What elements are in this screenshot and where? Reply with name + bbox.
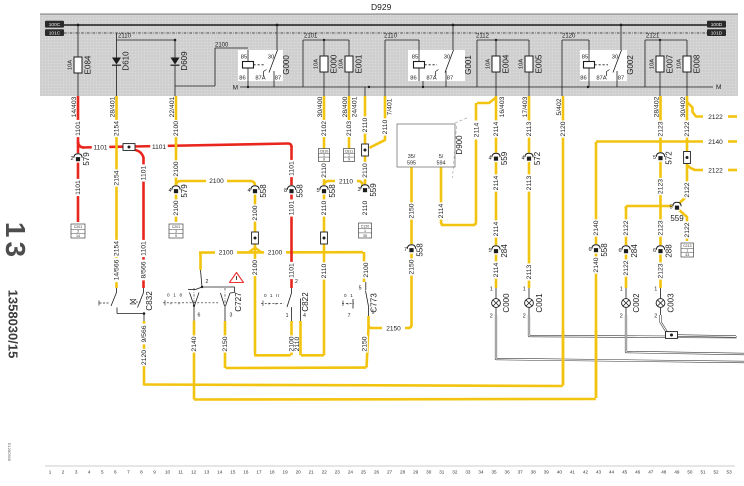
svg-text:1: 1 [364, 229, 366, 233]
svg-text:2140: 2140 [708, 139, 723, 146]
svg-text:2110: 2110 [294, 336, 301, 351]
svg-text:M: M [716, 84, 721, 91]
svg-text:3: 3 [175, 229, 177, 233]
svg-text:2102: 2102 [321, 121, 328, 136]
svg-text:2: 2 [620, 314, 623, 320]
svg-text:2123: 2123 [658, 220, 665, 235]
svg-text:10A: 10A [314, 59, 320, 69]
svg-text:579: 579 [180, 184, 189, 198]
svg-text:4: 4 [303, 313, 306, 319]
svg-text:558: 558 [296, 184, 305, 198]
svg-text:2154: 2154 [114, 170, 121, 185]
svg-text:2114: 2114 [474, 122, 481, 137]
svg-text:2154: 2154 [114, 241, 121, 256]
svg-text:1101: 1101 [152, 144, 166, 151]
svg-text:C773: C773 [369, 293, 378, 313]
svg-text:10A: 10A [677, 59, 683, 69]
svg-text:2114: 2114 [493, 221, 500, 236]
svg-text:37: 37 [518, 470, 524, 475]
svg-text:28/402: 28/402 [653, 96, 660, 117]
svg-text:1358030/15: 1358030/15 [6, 290, 21, 359]
svg-text:E007: E007 [666, 54, 675, 73]
svg-text:2122: 2122 [623, 220, 630, 235]
svg-text:572: 572 [665, 151, 674, 165]
svg-text:5: 5 [669, 204, 672, 210]
svg-text:+: + [178, 301, 181, 306]
svg-text:1: 1 [49, 470, 52, 475]
svg-text:595: 595 [407, 161, 416, 167]
svg-text:2112: 2112 [476, 34, 490, 40]
svg-text:9/566: 9/566 [141, 325, 148, 342]
svg-text:17/403: 17/403 [522, 96, 529, 117]
svg-text:18: 18 [269, 470, 275, 475]
svg-text:+: + [170, 301, 173, 306]
svg-text:2140: 2140 [593, 257, 600, 272]
svg-text:2122: 2122 [684, 182, 691, 197]
svg-text:87: 87 [618, 76, 624, 82]
svg-text:2150: 2150 [409, 203, 416, 218]
svg-text:14/566: 14/566 [114, 259, 121, 280]
svg-text:1101: 1101 [141, 241, 148, 256]
svg-text:G002: G002 [626, 55, 635, 75]
svg-text:C003: C003 [666, 293, 675, 313]
svg-text:85: 85 [412, 55, 418, 61]
svg-text:D610: D610 [122, 51, 131, 71]
svg-text:2101: 2101 [304, 34, 318, 40]
svg-text:51: 51 [700, 470, 706, 475]
svg-text:579: 579 [82, 152, 91, 166]
svg-text:30: 30 [612, 55, 618, 61]
svg-text:2114: 2114 [438, 203, 445, 218]
svg-text:C822: C822 [301, 292, 310, 312]
svg-text:1101: 1101 [75, 121, 82, 136]
svg-text:28/401: 28/401 [109, 96, 116, 117]
svg-text:0 1 8: 0 1 8 [167, 293, 183, 298]
svg-text:16/403: 16/403 [499, 96, 506, 117]
svg-text:2110: 2110 [118, 34, 132, 40]
svg-text:2114: 2114 [493, 121, 500, 136]
svg-text:2: 2 [295, 279, 298, 285]
svg-text:2110: 2110 [321, 200, 328, 215]
svg-text:100D: 100D [711, 22, 723, 28]
svg-text:8/566: 8/566 [141, 261, 148, 278]
svg-text:559: 559 [369, 183, 378, 197]
svg-text:1: 1 [686, 248, 688, 252]
svg-text:G001: G001 [464, 55, 473, 75]
svg-text:5/: 5/ [439, 154, 444, 160]
svg-text:572: 572 [533, 151, 542, 165]
svg-text:4: 4 [88, 470, 91, 475]
svg-text:2150: 2150 [409, 259, 416, 274]
svg-text:2: 2 [62, 470, 65, 475]
svg-text:7: 7 [348, 313, 351, 319]
svg-text:E001: E001 [355, 54, 364, 73]
svg-text:2114: 2114 [493, 175, 500, 190]
svg-text:G000: G000 [282, 55, 291, 75]
svg-text:1: 1 [654, 287, 657, 293]
svg-text:1101: 1101 [94, 145, 108, 152]
svg-text:2100: 2100 [215, 43, 229, 49]
svg-text:284: 284 [500, 244, 509, 258]
svg-text:22/401: 22/401 [169, 96, 176, 117]
svg-text:559: 559 [500, 151, 509, 165]
svg-text:4: 4 [247, 188, 250, 194]
svg-text:52: 52 [713, 470, 719, 475]
svg-text:85: 85 [582, 55, 588, 61]
svg-text:4: 4 [521, 155, 524, 161]
svg-text:2: 2 [654, 314, 657, 320]
svg-text:5: 5 [101, 470, 104, 475]
svg-text:2110: 2110 [339, 178, 353, 185]
svg-text:10A: 10A [650, 59, 656, 69]
svg-text:+: + [347, 302, 350, 307]
svg-text:30: 30 [268, 55, 274, 61]
svg-text:39: 39 [544, 470, 550, 475]
svg-text:13: 13 [0, 222, 31, 261]
svg-text:558: 558 [416, 243, 425, 257]
svg-text:2120: 2120 [141, 350, 148, 365]
svg-text:2123: 2123 [658, 121, 665, 136]
svg-text:35: 35 [363, 234, 367, 238]
svg-text:2150: 2150 [222, 336, 229, 351]
svg-text:2110: 2110 [382, 119, 389, 134]
svg-text:10A: 10A [486, 59, 492, 69]
svg-text:6: 6 [198, 313, 201, 319]
svg-text:20: 20 [296, 470, 302, 475]
svg-text:2110: 2110 [362, 163, 369, 178]
svg-text:30/402: 30/402 [680, 96, 687, 117]
svg-text:C002: C002 [632, 293, 641, 313]
svg-text:288: 288 [665, 244, 674, 258]
svg-text:2100: 2100 [268, 249, 283, 256]
svg-text:2100: 2100 [173, 200, 180, 215]
svg-text:284: 284 [630, 244, 639, 258]
svg-text:2120: 2120 [560, 121, 567, 136]
svg-text:49: 49 [674, 470, 680, 475]
svg-text:2110: 2110 [384, 34, 398, 40]
svg-text:24/401: 24/401 [351, 96, 358, 117]
svg-text:0 1: 0 1 [344, 293, 354, 298]
svg-text:100C: 100C [49, 22, 61, 28]
svg-text:2140: 2140 [593, 220, 600, 235]
svg-text:3: 3 [77, 229, 79, 233]
svg-text:21: 21 [309, 470, 315, 475]
svg-text:45: 45 [622, 470, 628, 475]
svg-text:12: 12 [191, 470, 197, 475]
svg-text:C832: C832 [145, 291, 154, 311]
svg-text:86: 86 [580, 76, 586, 82]
svg-text:8: 8 [140, 470, 143, 475]
svg-text:30: 30 [444, 55, 450, 61]
svg-text:2120: 2120 [562, 34, 576, 40]
svg-text:28/400: 28/400 [342, 96, 349, 117]
svg-text:87A: 87A [255, 76, 265, 82]
svg-text:E004: E004 [502, 54, 511, 73]
svg-text:50: 50 [687, 470, 693, 475]
svg-text:E084: E084 [84, 55, 93, 74]
svg-text:594: 594 [437, 161, 446, 167]
svg-text:1: 1 [523, 287, 526, 293]
svg-text:2100: 2100 [252, 205, 259, 220]
svg-text:6: 6 [588, 247, 591, 253]
svg-text:E1280506: E1280506 [7, 443, 12, 462]
svg-text:C001: C001 [535, 293, 544, 313]
svg-text:2122: 2122 [708, 167, 723, 174]
svg-text:26: 26 [374, 470, 380, 475]
svg-text:C120: C120 [361, 225, 370, 229]
svg-text:10: 10 [165, 470, 171, 475]
svg-text:9: 9 [153, 470, 156, 475]
svg-text:7/401: 7/401 [387, 98, 394, 115]
svg-text:35/: 35/ [408, 154, 416, 160]
svg-text:22: 22 [322, 470, 328, 475]
svg-text:4: 4 [168, 188, 171, 194]
svg-text:2114: 2114 [493, 262, 500, 277]
svg-text:4: 4 [488, 155, 491, 161]
svg-text:33: 33 [685, 253, 689, 257]
svg-text:2: 2 [523, 314, 526, 320]
svg-text:2110: 2110 [321, 263, 328, 278]
svg-text:1: 1 [490, 287, 493, 293]
svg-text:14: 14 [76, 234, 80, 238]
svg-text:6: 6 [618, 248, 621, 254]
svg-text:D609: D609 [180, 51, 189, 71]
svg-text:558: 558 [600, 243, 609, 257]
svg-text:87: 87 [275, 76, 281, 82]
svg-text:1: 1 [286, 313, 289, 319]
svg-text:2100: 2100 [173, 121, 180, 136]
svg-text:42: 42 [583, 470, 589, 475]
svg-text:86: 86 [410, 76, 416, 82]
svg-text:2100: 2100 [363, 262, 370, 277]
svg-text:2100: 2100 [252, 260, 259, 275]
svg-text:M: M [233, 85, 238, 92]
svg-text:86: 86 [239, 76, 245, 82]
svg-text:40: 40 [557, 470, 563, 475]
svg-text:48: 48 [661, 470, 667, 475]
svg-text:2113: 2113 [526, 121, 533, 136]
svg-text:2123: 2123 [658, 263, 665, 278]
svg-text:C000: C000 [502, 293, 511, 313]
svg-text:14: 14 [217, 470, 223, 475]
svg-text:558: 558 [328, 184, 337, 198]
svg-text:25: 25 [361, 470, 367, 475]
svg-text:+: + [268, 302, 271, 307]
svg-text:9: 9 [323, 158, 325, 162]
svg-text:35: 35 [491, 470, 497, 475]
svg-text:31: 31 [439, 470, 445, 475]
svg-text:28: 28 [400, 470, 406, 475]
svg-text:33: 33 [465, 470, 471, 475]
svg-text:38: 38 [531, 470, 537, 475]
svg-text:2113: 2113 [526, 175, 533, 190]
svg-text:44: 44 [609, 470, 615, 475]
svg-text:7: 7 [127, 470, 130, 475]
svg-text:E008: E008 [693, 54, 702, 73]
svg-text:101D: 101D [711, 30, 723, 36]
svg-text:1101: 1101 [75, 180, 82, 195]
svg-text:10A: 10A [519, 59, 525, 69]
svg-text:47: 47 [648, 470, 654, 475]
svg-text:87A: 87A [426, 76, 436, 82]
svg-text:41: 41 [570, 470, 576, 475]
svg-text:2122: 2122 [684, 222, 691, 237]
svg-text:2122: 2122 [708, 114, 723, 121]
svg-text:23: 23 [335, 470, 341, 475]
svg-text:34: 34 [478, 470, 484, 475]
svg-text:3: 3 [357, 187, 360, 193]
svg-text:87A: 87A [596, 76, 606, 82]
svg-text:2: 2 [206, 279, 209, 285]
svg-text:27: 27 [387, 470, 393, 475]
svg-text:19: 19 [283, 470, 289, 475]
svg-text:15: 15 [230, 470, 236, 475]
svg-text:85: 85 [241, 55, 247, 61]
svg-text:559: 559 [670, 214, 684, 223]
svg-text:2122: 2122 [623, 260, 630, 275]
svg-text:3: 3 [75, 470, 78, 475]
svg-text:2150: 2150 [362, 336, 369, 351]
svg-text:E000: E000 [330, 54, 339, 73]
svg-text:30: 30 [426, 470, 432, 475]
svg-text:5: 5 [359, 286, 362, 292]
svg-text:E005: E005 [535, 54, 544, 73]
svg-text:1101: 1101 [289, 161, 296, 176]
svg-text:6: 6 [114, 470, 117, 475]
svg-text:11: 11 [178, 470, 183, 475]
svg-text:D929: D929 [371, 2, 392, 12]
svg-text:13: 13 [204, 470, 210, 475]
svg-text:24: 24 [348, 470, 354, 475]
svg-text:2140: 2140 [191, 336, 198, 351]
svg-text:2122: 2122 [684, 121, 691, 136]
svg-text:53: 53 [727, 470, 733, 475]
svg-text:9: 9 [175, 234, 177, 238]
svg-text:2110: 2110 [362, 117, 369, 132]
svg-text:29: 29 [413, 470, 419, 475]
svg-text:1101: 1101 [289, 263, 296, 278]
svg-text:3: 3 [230, 313, 233, 319]
svg-text:7: 7 [404, 247, 407, 253]
svg-text:2123: 2123 [658, 179, 665, 194]
svg-text:2100: 2100 [219, 249, 234, 256]
svg-text:17: 17 [256, 470, 262, 475]
svg-text:10A: 10A [68, 60, 74, 70]
svg-text:C727: C727 [234, 292, 243, 312]
svg-text:2121: 2121 [646, 34, 660, 40]
svg-text:2110: 2110 [362, 200, 369, 215]
svg-text:8: 8 [284, 188, 287, 194]
svg-text:101C: 101C [49, 30, 61, 36]
svg-text:2100: 2100 [173, 161, 180, 176]
svg-text:2113: 2113 [526, 264, 533, 279]
svg-text:2103: 2103 [346, 121, 353, 136]
svg-text:1: 1 [620, 287, 623, 293]
svg-text:5: 5 [653, 155, 656, 161]
svg-text:36: 36 [505, 470, 511, 475]
svg-text:32: 32 [452, 470, 458, 475]
svg-text:9: 9 [348, 158, 350, 162]
svg-text:6: 6 [653, 248, 656, 254]
svg-text:30/400: 30/400 [317, 96, 324, 117]
svg-text:+: + [275, 302, 278, 307]
svg-text:5/402: 5/402 [556, 98, 563, 115]
svg-text:10A: 10A [339, 59, 345, 69]
svg-text:2154: 2154 [114, 121, 121, 136]
svg-text:2150: 2150 [386, 325, 401, 332]
svg-text:2110: 2110 [321, 163, 328, 178]
svg-text:2100: 2100 [209, 178, 224, 185]
svg-text:46: 46 [635, 470, 641, 475]
svg-text:43: 43 [596, 470, 602, 475]
svg-text:2: 2 [70, 156, 73, 162]
svg-text:2: 2 [490, 314, 493, 320]
svg-text:5: 5 [316, 188, 319, 194]
svg-text:D900: D900 [455, 135, 464, 155]
svg-text:5: 5 [488, 248, 491, 254]
svg-text:16: 16 [243, 470, 249, 475]
svg-text:0 1 II: 0 1 II [264, 293, 280, 298]
svg-text:1101: 1101 [289, 200, 296, 215]
svg-text:558: 558 [259, 184, 268, 198]
svg-text:14/403: 14/403 [71, 96, 78, 117]
svg-text:87: 87 [447, 76, 453, 82]
svg-text:1101: 1101 [141, 165, 148, 180]
